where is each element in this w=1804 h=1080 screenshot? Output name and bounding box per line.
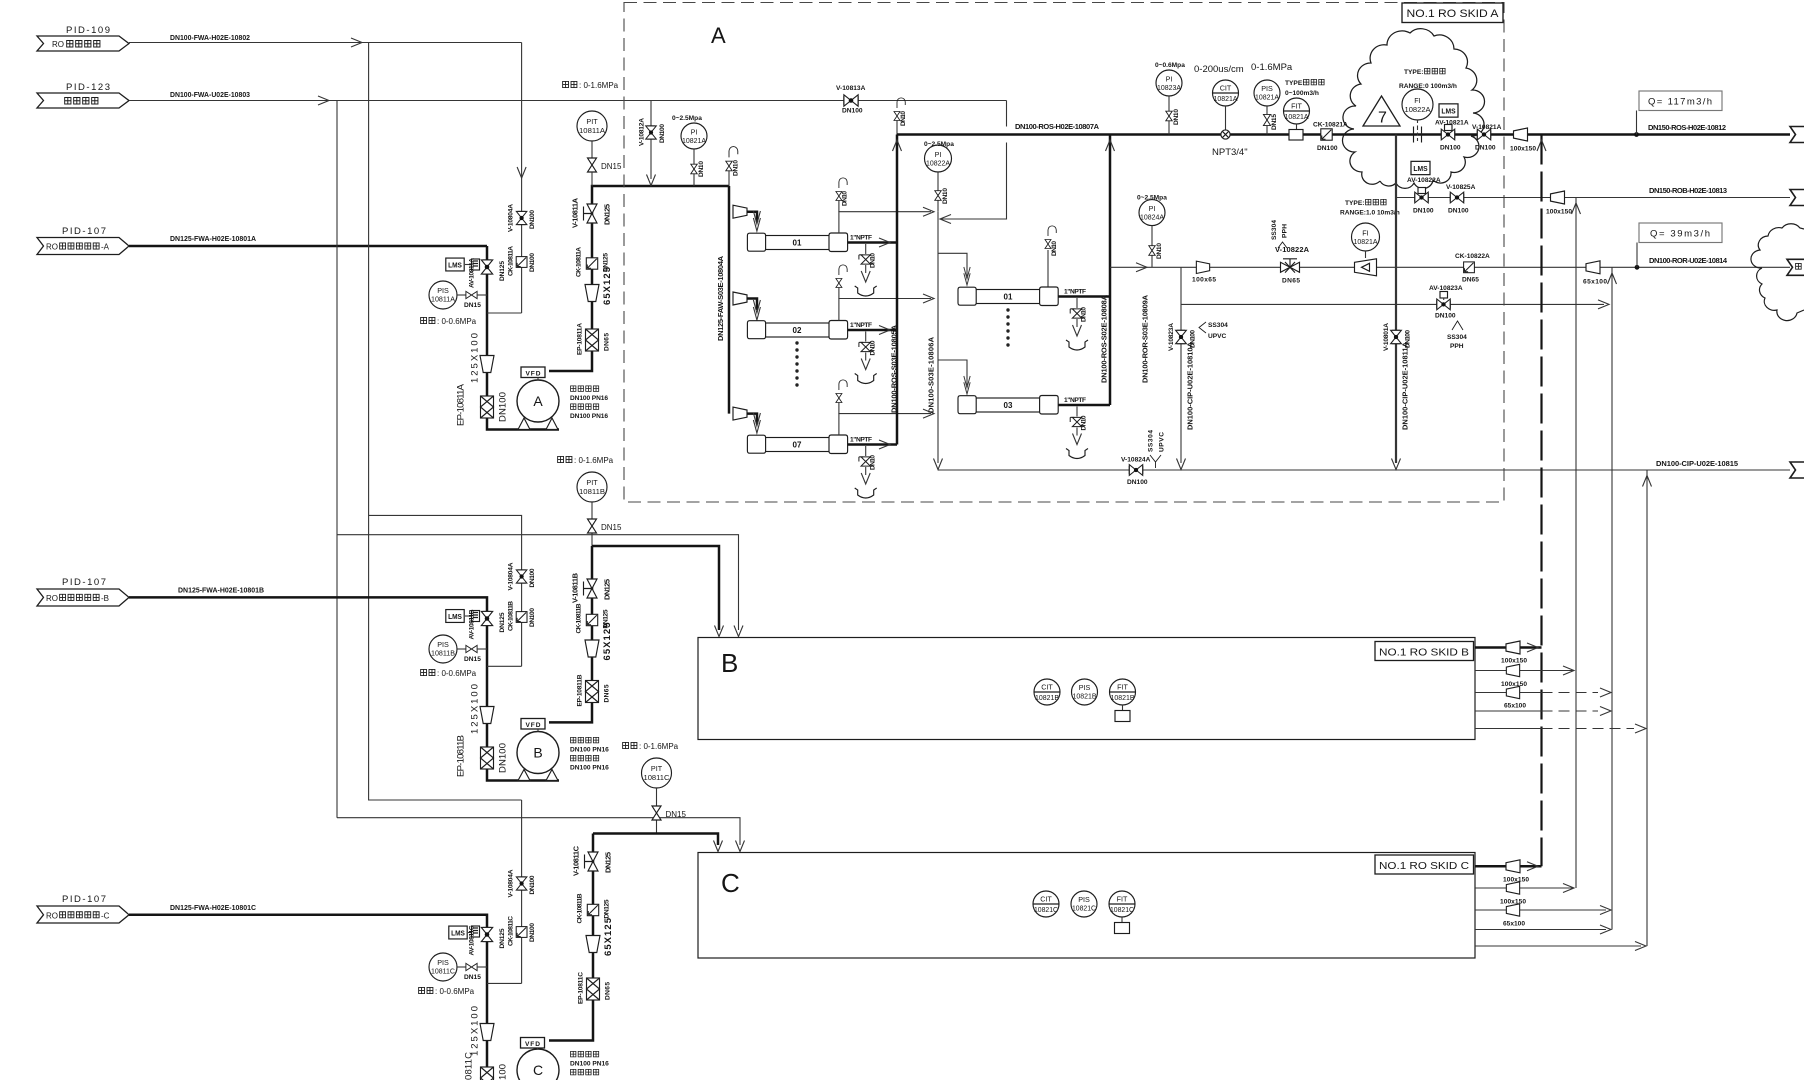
svg-text:PIT: PIT	[586, 117, 598, 126]
wire reject collector x1612	[1611, 267, 1613, 929]
bellows EP-10811A DN100	[456, 383, 509, 426]
svg-text:AV-10823A: AV-10823A	[1429, 285, 1463, 292]
svg-text:0-200us/cm: 0-200us/cm	[1194, 64, 1244, 75]
svg-text:10821C: 10821C	[1072, 904, 1096, 913]
svg-text:AV-10811B: AV-10811B	[469, 609, 476, 639]
wire PIS test line to flush	[487, 312, 522, 314]
svg-text:0-1.6MPa: 0-1.6MPa	[1251, 62, 1293, 73]
valve CK-10822A DN65	[1455, 253, 1490, 284]
svg-text:V-10821A: V-10821A	[1472, 124, 1502, 131]
orifice plate	[1414, 127, 1422, 143]
svg-text:DN100: DN100	[1317, 145, 1338, 152]
wire blend collector x1576	[1575, 198, 1577, 889]
svg-text:DN100: DN100	[1413, 208, 1434, 215]
svg-text:A: A	[711, 23, 726, 48]
wire permeate 07	[848, 443, 897, 446]
instrument PI 10824A	[1137, 195, 1167, 268]
membrane housing 07	[747, 435, 872, 454]
instrument PIT 10811A	[577, 111, 622, 186]
svg-text:V-10824A: V-10824A	[1121, 457, 1151, 464]
svg-text:SS304: SS304	[1208, 322, 1228, 329]
svg-text:DN100: DN100	[1127, 479, 1148, 486]
svg-text:DN100: DN100	[1475, 145, 1496, 152]
wire C feed to skid	[593, 834, 718, 846]
sample point branch 2-01	[1045, 226, 1058, 287]
label UPVC/SS304 rotated	[1148, 430, 1166, 468]
label range 0-0.6MPa C	[419, 987, 475, 996]
valve V-10804A DN100 on flush A	[508, 204, 537, 232]
LMS box B	[446, 610, 471, 623]
svg-text:CK-10811C: CK-10811C	[508, 916, 515, 946]
svg-text:DN100: DN100	[1448, 208, 1469, 215]
instrument PIS 10811C	[429, 953, 487, 981]
svg-text:DN15: DN15	[464, 656, 481, 663]
skid B output drain	[1475, 707, 1611, 716]
svg-text:DN100 PN16: DN100 PN16	[570, 747, 609, 754]
svg-text:DN10: DN10	[842, 191, 849, 206]
instrument FIT 10821A	[1284, 79, 1325, 140]
svg-text:RO: RO	[46, 912, 58, 921]
svg-text:0~0.6Mpa: 0~0.6Mpa	[1155, 62, 1185, 69]
skid C output product	[1475, 860, 1542, 884]
svg-text:125X100: 125X100	[470, 333, 481, 383]
svg-text:FIT: FIT	[1117, 895, 1128, 904]
svg-text:PPH: PPH	[1282, 224, 1289, 238]
drain 07	[855, 446, 877, 498]
svg-text:DN10: DN10	[870, 340, 877, 355]
svg-text:VFD: VFD	[526, 371, 541, 378]
svg-text:TYPE:: TYPE:	[1285, 80, 1304, 87]
svg-text:-B: -B	[101, 594, 109, 603]
svg-text:01: 01	[793, 239, 802, 248]
svg-text:V-10804A: V-10804A	[508, 869, 515, 897]
svg-text:-A: -A	[101, 243, 110, 252]
svg-text:1"NPTF: 1"NPTF	[1064, 397, 1086, 404]
svg-text:RANGE:1.0 10m3/h: RANGE:1.0 10m3/h	[1340, 210, 1400, 217]
svg-text:10821A: 10821A	[682, 136, 706, 145]
svg-text:SS304: SS304	[1148, 430, 1155, 452]
wire train A flush drop	[521, 43, 523, 314]
svg-text:DN100: DN100	[659, 124, 666, 143]
sample line 07	[836, 380, 934, 435]
svg-text:DN15: DN15	[666, 810, 687, 819]
membrane housing 02	[747, 321, 872, 340]
connector flag PID-107 RO cartridge filter C	[37, 894, 129, 923]
label range 0-0.6MPa B	[421, 669, 477, 678]
svg-text:DN125-FWA-H02E-10801B: DN125-FWA-H02E-10801B	[178, 586, 265, 595]
svg-text:EP-10811A: EP-10811A	[577, 323, 584, 355]
connector flag PID-107 RO cartridge filter A	[37, 226, 129, 255]
svg-text:VFD: VFD	[526, 722, 541, 729]
valve V-10811A DN125 gate	[571, 197, 612, 228]
branch feed 07	[733, 407, 760, 433]
reducer 65x100 reject	[1583, 261, 1607, 286]
svg-text:NPT3/4": NPT3/4"	[1212, 147, 1248, 158]
LMS box C	[449, 926, 471, 939]
svg-text:DN125: DN125	[603, 253, 610, 272]
valve V-10804A DN100 flush C	[508, 869, 537, 897]
svg-text:DN10: DN10	[870, 455, 877, 470]
svg-text:FIT: FIT	[1117, 683, 1128, 692]
svg-text:A: A	[533, 393, 543, 409]
instrument FI 10821A with flow element	[1340, 199, 1400, 275]
instrument PIS 10811B	[429, 635, 487, 663]
sample point on feed header corner	[726, 147, 740, 186]
valve AV-10821A DN100	[1440, 125, 1461, 152]
svg-text:10823A: 10823A	[1157, 83, 1181, 92]
pump B with VFD	[517, 719, 559, 781]
sample point on permeate header	[894, 98, 907, 135]
svg-text:10821A: 10821A	[1255, 93, 1279, 102]
instrument PI 10823A	[1155, 62, 1185, 135]
valve CK-10811B DN125 C	[577, 893, 611, 923]
svg-text:DN100: DN100	[529, 253, 536, 272]
svg-text:DN100: DN100	[498, 392, 509, 422]
svg-text:AV-10811A: AV-10811A	[469, 258, 476, 288]
svg-text:125X100: 125X100	[470, 1006, 481, 1056]
bellows EP-10811B DN65	[577, 674, 611, 706]
valve V-10824A DN100	[1121, 457, 1151, 487]
svg-text:DN125: DN125	[499, 612, 506, 632]
skid A name box	[1402, 3, 1503, 23]
svg-text:DN100-ROS-S03E-10805A: DN100-ROS-S03E-10805A	[890, 324, 899, 413]
svg-text:CK-10811B: CK-10811B	[508, 601, 515, 631]
svg-text:DN125-FAW-S03E-10804A: DN125-FAW-S03E-10804A	[716, 255, 725, 341]
svg-text:DN125: DN125	[499, 928, 506, 948]
svg-text:DN100: DN100	[529, 875, 536, 894]
svg-text:V-10813A: V-10813A	[836, 85, 866, 92]
svg-text:DN100: DN100	[1435, 313, 1456, 320]
instrument PIT 10811B	[558, 456, 622, 546]
wire flush drop to stage-2 feed (crosses product line)	[940, 101, 1007, 220]
skid C output drain	[1475, 925, 1611, 934]
instrument PI 10821A	[672, 115, 707, 186]
svg-text:100x150: 100x150	[1546, 209, 1572, 216]
svg-text:DN100-ROS-H02E-10807A: DN100-ROS-H02E-10807A	[1015, 122, 1100, 131]
svg-text:TYPE:: TYPE:	[1404, 69, 1423, 76]
skid B output CIP	[1475, 724, 1646, 733]
label range 0-0.6MPa	[421, 317, 477, 326]
pump C with VFD	[517, 1038, 559, 1080]
svg-text:1"NPTF: 1"NPTF	[1064, 289, 1086, 296]
junction dot reject	[1635, 265, 1640, 270]
svg-text:10821B: 10821B	[1073, 692, 1097, 701]
wire product collector x1541	[1540, 135, 1542, 867]
svg-text:SS304: SS304	[1447, 334, 1467, 341]
svg-text:100: 100	[498, 1064, 509, 1080]
valve V-10821A DN100	[1472, 124, 1502, 152]
wire B-branch of flush header	[369, 515, 522, 666]
svg-text:Q= 117m3/h: Q= 117m3/h	[1648, 97, 1712, 108]
svg-text:DN125: DN125	[603, 579, 612, 600]
svg-text:DN100-CIP-U02E-10811A: DN100-CIP-U02E-10811A	[1401, 341, 1410, 430]
svg-text:PIT: PIT	[651, 764, 663, 773]
svg-text:B: B	[533, 745, 542, 761]
svg-text:10811C: 10811C	[644, 773, 670, 782]
svg-text:V-10823A: V-10823A	[1168, 323, 1175, 351]
svg-text:TYPE:: TYPE:	[1345, 200, 1364, 207]
sample line 02	[836, 265, 934, 321]
wire DN100-ROR reject line	[1110, 266, 1790, 268]
wire stage2 feed header	[937, 212, 939, 463]
svg-text:DN100: DN100	[529, 608, 536, 627]
svg-text:DN100 PN16: DN100 PN16	[570, 395, 608, 402]
instrument CIT 10821B	[1034, 679, 1060, 705]
reducer 100x65	[1192, 261, 1216, 283]
svg-text:DN100: DN100	[529, 923, 536, 942]
instrument PIT 10811C	[623, 742, 687, 834]
instrument FIT 10821B	[1110, 679, 1136, 722]
svg-text:EP-10811B: EP-10811B	[456, 735, 467, 777]
svg-text:V-10811B: V-10811B	[571, 572, 580, 603]
svg-text:DN10: DN10	[942, 188, 949, 204]
valve CK-10811B DN125	[576, 603, 610, 633]
svg-text:DN100: DN100	[498, 743, 509, 773]
svg-text:0811C: 0811C	[464, 1052, 475, 1080]
wire C-branch flush	[521, 800, 523, 983]
svg-text:EP-10811C: EP-10811C	[578, 972, 585, 1004]
svg-text:DN150-ROS-H02E-10812: DN150-ROS-H02E-10812	[1648, 123, 1726, 132]
svg-text:0~100m3/h: 0~100m3/h	[1285, 90, 1319, 97]
svg-text:NO.1 RO SKID A: NO.1 RO SKID A	[1407, 8, 1500, 20]
LMS box A	[446, 258, 471, 271]
svg-text:AV-10811C: AV-10811C	[469, 925, 476, 955]
svg-text:CK-10811B: CK-10811B	[577, 893, 584, 923]
svg-text:DN100 PN16: DN100 PN16	[570, 1061, 609, 1068]
skid A dashed boundary	[624, 3, 1504, 503]
instrument FIT 10821C	[1109, 891, 1135, 934]
reducer 100x150 blend	[1546, 191, 1572, 216]
skid B output reject	[1475, 686, 1611, 709]
wire stage1 feed header	[728, 186, 731, 414]
svg-text:DN100: DN100	[529, 568, 536, 587]
skid B name box	[1375, 642, 1474, 661]
svg-text:: 0-0.6MPa: : 0-0.6MPa	[437, 317, 477, 326]
svg-text:10821B: 10821B	[1035, 693, 1059, 702]
wire pump A discharge	[549, 186, 729, 371]
svg-text:DN100: DN100	[842, 108, 863, 115]
LMS box product	[1435, 104, 1469, 127]
svg-text:C: C	[721, 868, 740, 898]
svg-text:EP-10811A: EP-10811A	[456, 383, 467, 426]
svg-text:PIT: PIT	[586, 478, 598, 487]
connector flag CIP right	[1790, 462, 1804, 478]
svg-text:RO: RO	[52, 40, 64, 49]
valve V-10812A DN100 branch	[639, 101, 667, 186]
valve AV-10811B DN125	[469, 609, 507, 639]
connector flag PID-123 cleaning water pump	[37, 82, 129, 108]
svg-text:65X125: 65X125	[603, 917, 614, 956]
svg-text:DN100-CIP-U02E-10810A: DN100-CIP-U02E-10810A	[1186, 341, 1195, 430]
valve V-10813A DN100 on flush header	[836, 85, 866, 115]
valve AV-10822A DN100	[1413, 188, 1434, 215]
svg-text:: 0-0.6MPa: : 0-0.6MPa	[435, 987, 475, 996]
instrument PIS 10821B	[1072, 679, 1098, 705]
svg-text:10821C: 10821C	[1110, 905, 1134, 914]
svg-text:0~2.5Mpa: 0~2.5Mpa	[672, 115, 702, 122]
svg-text:10822A: 10822A	[1405, 105, 1431, 114]
drain 02	[855, 332, 877, 384]
connector flag PID-107 RO cartridge filter B	[37, 577, 129, 606]
svg-text:DN125: DN125	[603, 609, 610, 628]
svg-text:65x100: 65x100	[1583, 279, 1607, 286]
svg-text:DN15: DN15	[464, 302, 481, 309]
svg-text:V-10804A: V-10804A	[508, 562, 515, 590]
svg-text:: 0-1.6MPa: : 0-1.6MPa	[574, 456, 614, 465]
valve V-10825A DN100	[1446, 184, 1476, 215]
wire flush header drop x368	[369, 43, 522, 801]
junction dot product	[1634, 132, 1639, 137]
membrane housing 01	[747, 233, 872, 252]
wire permeate 2-01	[1058, 295, 1110, 298]
svg-text:V-10804A: V-10804A	[508, 204, 515, 232]
svg-text:CK-10811B: CK-10811B	[576, 603, 583, 633]
svg-text:-C: -C	[101, 912, 110, 921]
instrument CIT 10821A	[1194, 64, 1248, 158]
svg-text:DN10: DN10	[1081, 307, 1088, 322]
svg-text:CIT: CIT	[1040, 895, 1052, 904]
svg-text:10811A: 10811A	[431, 295, 455, 304]
svg-text:: 0-1.6MPa: : 0-1.6MPa	[579, 81, 619, 90]
skid C output reject	[1475, 904, 1611, 928]
wire clean header drop x337	[336, 101, 338, 818]
wire B-branch of clean header	[337, 535, 739, 630]
wire permeate 2-03	[1058, 404, 1110, 407]
valve CK-10821A DN100	[1313, 122, 1348, 153]
valve AV-10811A DN125 (auto)	[469, 258, 507, 288]
svg-text:CK-10811A: CK-10811A	[576, 247, 583, 277]
svg-text:1"NPTF: 1"NPTF	[850, 437, 872, 444]
svg-text:V-10801A: V-10801A	[1383, 323, 1390, 351]
svg-text:1"NPTF: 1"NPTF	[850, 235, 872, 242]
wire permeate 01	[848, 241, 897, 244]
reducer 65X125	[585, 266, 613, 305]
svg-text:DN100: DN100	[1440, 145, 1461, 152]
svg-text:DN125: DN125	[499, 261, 506, 281]
svg-text:65x100: 65x100	[1503, 921, 1525, 928]
svg-text:VFD: VFD	[525, 1041, 540, 1048]
drain 2-03	[1066, 407, 1088, 459]
label pump B flanges	[570, 737, 609, 771]
svg-text:100x150: 100x150	[1500, 899, 1526, 906]
svg-text:DN65: DN65	[605, 982, 612, 1000]
svg-text:RO: RO	[46, 243, 58, 252]
svg-text:DN65: DN65	[1282, 278, 1300, 285]
drain 01	[855, 244, 877, 296]
wire stage2 permeate header	[1109, 135, 1112, 406]
svg-text:DN15: DN15	[601, 162, 622, 171]
wire stage1 permeate header	[896, 135, 899, 445]
bellows EP-10811B DN100	[456, 735, 509, 777]
svg-text:SS304: SS304	[1271, 220, 1278, 240]
svg-text:DN10: DN10	[1081, 415, 1088, 430]
svg-text:DN125: DN125	[604, 899, 611, 918]
svg-text:CK-10822A: CK-10822A	[1455, 253, 1490, 260]
svg-text:UPVC: UPVC	[1159, 432, 1166, 452]
wire PIS test line B	[487, 665, 522, 667]
connector flag blend right	[1790, 190, 1804, 206]
revision cloud	[1342, 29, 1484, 189]
connector flag product right	[1790, 127, 1804, 143]
svg-text:10821A: 10821A	[1354, 237, 1378, 246]
instrument PIS 10821A	[1251, 62, 1293, 135]
label pump C flanges	[570, 1051, 609, 1075]
svg-text:DN10: DN10	[1051, 241, 1058, 256]
svg-text:DN10: DN10	[1173, 109, 1180, 125]
svg-text:DN10: DN10	[900, 111, 907, 126]
svg-text:DN65: DN65	[604, 684, 611, 702]
svg-text:DN100 PN16: DN100 PN16	[570, 413, 608, 420]
svg-text:: 0-0.6MPa: : 0-0.6MPa	[437, 669, 477, 678]
svg-text:V-10822A: V-10822A	[1275, 245, 1310, 254]
svg-text:UPVC: UPVC	[1208, 333, 1227, 340]
instrument PIS 10821C	[1071, 891, 1097, 917]
wire feed drop A	[487, 246, 559, 430]
wire product line	[897, 133, 1790, 136]
svg-text:03: 03	[1004, 401, 1013, 410]
valve CK-10811A DN125	[576, 247, 610, 277]
svg-text:AV-10822A: AV-10822A	[1407, 177, 1441, 184]
wire PIS test line C	[487, 982, 522, 984]
svg-text:01: 01	[1004, 293, 1013, 302]
svg-text:DN100-S03E-10806A: DN100-S03E-10806A	[927, 336, 936, 413]
svg-text:DN100-ROR-U02E-10814: DN100-ROR-U02E-10814	[1649, 256, 1728, 265]
wire C-branch clean	[337, 818, 740, 845]
svg-text:DN10: DN10	[1156, 243, 1163, 259]
wire CIP collector x1647	[1646, 470, 1648, 946]
svg-text:DN125: DN125	[604, 852, 613, 873]
reducer 125X100 B	[470, 684, 495, 734]
svg-text:10821B: 10821B	[1111, 693, 1135, 702]
svg-text:EP-10811B: EP-10811B	[577, 674, 584, 706]
svg-text:CIT: CIT	[1041, 683, 1053, 692]
svg-text:07: 07	[793, 441, 802, 450]
valve V-10804A DN100 flush B	[508, 562, 537, 590]
wire permeate 02	[848, 329, 897, 332]
skid C output blend	[1475, 882, 1574, 906]
svg-text:RO: RO	[46, 594, 58, 603]
instrument CIT 10821C	[1033, 891, 1059, 917]
skid C name box	[1375, 855, 1474, 874]
svg-text:65x100: 65x100	[1504, 703, 1526, 710]
LMS box blend	[1407, 161, 1441, 184]
valve CK-10811B DN100 flush B	[508, 601, 537, 631]
svg-text:DN125: DN125	[603, 204, 612, 225]
svg-text:DN10: DN10	[698, 161, 705, 177]
wire AV-10823A bypass	[1181, 303, 1604, 305]
svg-text:Q= 39m3/h: Q= 39m3/h	[1650, 229, 1710, 240]
svg-text:DN65: DN65	[604, 333, 611, 351]
svg-text:CIT: CIT	[1220, 84, 1232, 93]
svg-text:100x150: 100x150	[1510, 146, 1536, 153]
connector flag reject to ditch	[1787, 259, 1804, 275]
svg-text:DN100 PN16: DN100 PN16	[570, 765, 609, 772]
wire pump B discharge	[549, 546, 592, 722]
svg-text:10821A: 10821A	[1214, 94, 1238, 103]
Q=117m3/h box	[1637, 91, 1723, 135]
svg-text:DN125-FWA-H02E-10801A: DN125-FWA-H02E-10801A	[170, 234, 257, 243]
valve V-10801A DN100 on CIP vertical	[1383, 323, 1412, 351]
svg-text:RANGE:0 100m3/h: RANGE:0 100m3/h	[1399, 83, 1457, 90]
svg-text:B: B	[721, 648, 738, 678]
reducer 65X125 C	[586, 917, 614, 956]
svg-text:DN125-FWA-H02E-10801C: DN125-FWA-H02E-10801C	[170, 903, 257, 912]
branch feed 2-01	[938, 253, 967, 276]
svg-text:100x65: 100x65	[1192, 277, 1216, 284]
svg-text:V-10825A: V-10825A	[1446, 184, 1476, 191]
branch feed 02	[733, 292, 760, 320]
valve CK-10811A DN100 on flush A	[508, 246, 537, 276]
